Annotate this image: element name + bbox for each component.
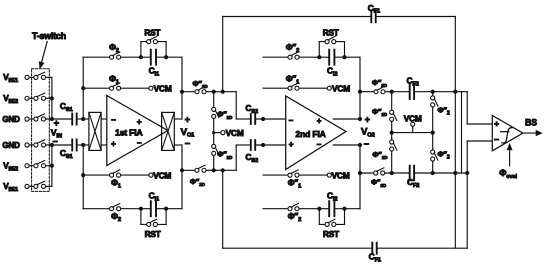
svg-text:+: + xyxy=(289,140,294,149)
svg-text:GND: GND xyxy=(2,141,20,150)
svg-text:VCM: VCM xyxy=(226,128,244,138)
svg-text:−: − xyxy=(494,135,499,145)
svg-text:2nd FIA: 2nd FIA xyxy=(296,129,326,139)
svg-text:VCM: VCM xyxy=(332,84,350,94)
svg-text:RST: RST xyxy=(144,29,160,38)
svg-text:−: − xyxy=(137,139,142,148)
svg-text:VCM: VCM xyxy=(153,170,171,180)
svg-text:−: − xyxy=(289,116,294,125)
svg-text:VCM: VCM xyxy=(332,170,350,180)
svg-text:T-switch: T-switch xyxy=(32,31,66,41)
svg-text:1st FIA: 1st FIA xyxy=(115,127,142,137)
svg-text:RST: RST xyxy=(145,230,161,239)
svg-text:+: + xyxy=(365,115,370,125)
svg-text:+: + xyxy=(111,140,116,149)
svg-text:−: − xyxy=(185,138,190,148)
svg-text:−: − xyxy=(52,136,57,146)
svg-text:+: + xyxy=(317,116,322,125)
svg-text:−: − xyxy=(364,139,369,149)
svg-text:RST: RST xyxy=(323,230,339,239)
svg-text:+: + xyxy=(494,119,499,129)
svg-text:VCM: VCM xyxy=(154,84,172,94)
svg-text:−: − xyxy=(111,116,116,125)
svg-text:GND: GND xyxy=(2,115,20,124)
svg-text:BS: BS xyxy=(525,117,537,127)
svg-text:+: + xyxy=(54,118,59,128)
svg-text:RST: RST xyxy=(323,29,339,38)
svg-text:+: + xyxy=(185,114,190,124)
svg-text:−: − xyxy=(317,140,322,149)
svg-text:+: + xyxy=(137,118,142,127)
